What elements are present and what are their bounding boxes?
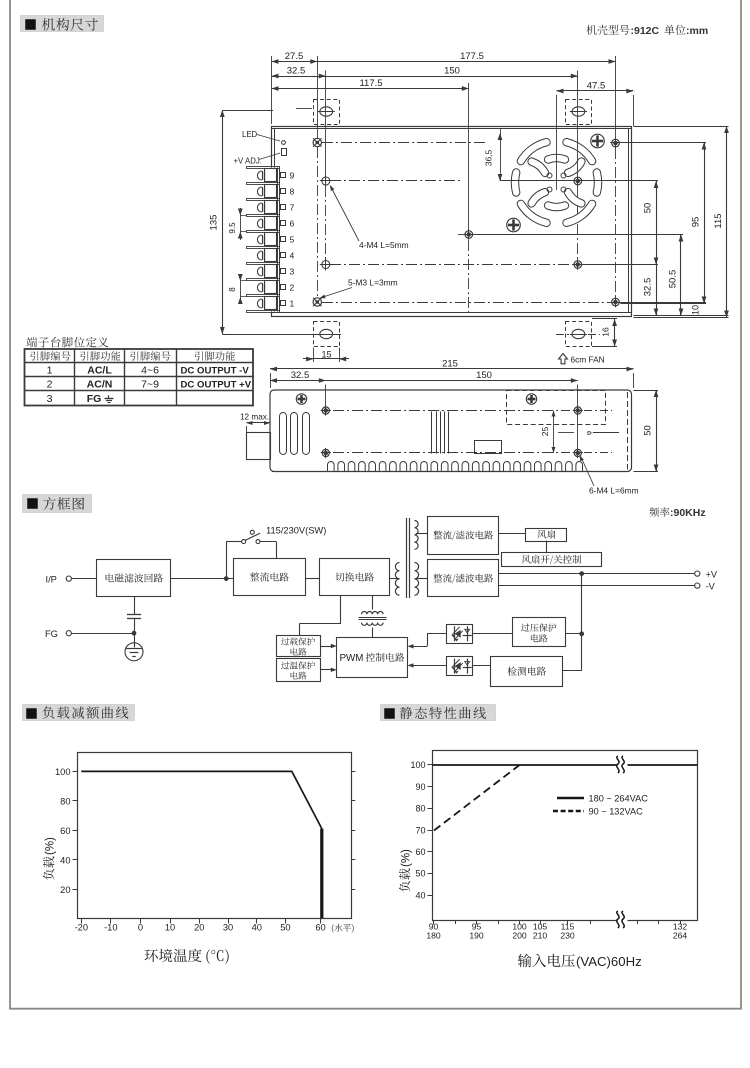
fan control box 风扇开/关控制 xyxy=(502,553,602,567)
svg-text:20: 20 xyxy=(60,885,70,895)
terminal screw 8 xyxy=(257,187,261,196)
centerline mark xyxy=(558,432,574,434)
svg-text:100: 100 xyxy=(55,767,71,777)
right dim 50.5 xyxy=(680,235,682,316)
terminal screw 5 xyxy=(257,235,261,244)
svg-text:32.5: 32.5 xyxy=(287,66,306,77)
y tick 90 xyxy=(428,786,433,788)
svg-text:117.5: 117.5 xyxy=(359,78,382,89)
svg-text:10: 10 xyxy=(165,923,175,933)
axis break marks xyxy=(618,756,628,774)
hole mid left xyxy=(322,261,330,269)
dim extension verticals top xyxy=(271,56,273,124)
side view case outline xyxy=(270,390,632,472)
terminal screw 7 xyxy=(257,203,261,212)
hole center (117.5 ref) xyxy=(465,231,473,239)
frequency label xyxy=(649,507,669,517)
dashed line (90~132VAC) xyxy=(434,765,520,831)
svg-text:6-M4 L=6mm: 6-M4 L=6mm xyxy=(589,486,639,496)
svg-text::912C: :912C xyxy=(631,25,660,37)
hole 5-M3 xyxy=(313,298,321,306)
dim 16 right bracket xyxy=(614,319,616,347)
x tick 20 xyxy=(199,919,201,924)
svg-text:6cm FAN: 6cm FAN xyxy=(571,355,605,365)
opto-coupler U1 xyxy=(447,625,473,644)
wire from switching to protection xyxy=(340,596,342,624)
+V ADJ label xyxy=(282,149,287,156)
switching box 切换电路 xyxy=(320,559,390,596)
svg-text:60: 60 xyxy=(315,923,325,933)
right dim 50 xyxy=(656,181,658,265)
wire xyxy=(546,541,548,553)
svg-text:15: 15 xyxy=(321,350,331,360)
node on +V xyxy=(580,572,584,576)
terminal block top view xyxy=(246,168,279,312)
right dim 95 xyxy=(704,143,706,304)
svg-text:5-M3 L=3mm: 5-M3 L=3mm xyxy=(348,278,398,288)
svg-text:LED: LED xyxy=(242,130,258,139)
dim 15 bottom bracket xyxy=(313,348,315,363)
svg-text:12 max.: 12 max. xyxy=(240,413,269,422)
svg-text:I/P: I/P xyxy=(46,574,57,584)
wire xyxy=(499,533,526,535)
secondary winding (main) xyxy=(415,563,419,596)
y tick 100 xyxy=(428,764,433,766)
svg-text:50: 50 xyxy=(415,869,425,879)
svg-text:7: 7 xyxy=(290,203,295,213)
table title 端子台脚位定义 xyxy=(26,337,108,348)
svg-text:4-M4 L=5mm: 4-M4 L=5mm xyxy=(359,240,409,250)
y tick 80 xyxy=(428,808,433,810)
svg-text:3: 3 xyxy=(290,267,295,277)
arrow wires into PWM xyxy=(320,646,333,648)
section header: 静态特性曲线 xyxy=(381,705,496,721)
svg-text:(%): (%) xyxy=(400,849,412,867)
pinout table xyxy=(25,349,254,406)
svg-text:-20: -20 xyxy=(75,923,88,933)
svg-text:230: 230 xyxy=(560,931,575,941)
x tick 60 xyxy=(320,919,322,924)
svg-text:70: 70 xyxy=(415,825,425,835)
detect box 检测电路 xyxy=(491,657,563,687)
svg-text:30: 30 xyxy=(223,923,233,933)
svg-text:2: 2 xyxy=(47,379,53,391)
wires opto2 xyxy=(411,665,447,667)
bottom mounting brackets (dashed) xyxy=(314,322,340,347)
svg-text:47.5: 47.5 xyxy=(587,81,606,92)
y tick 100 xyxy=(73,771,78,773)
dim line 32.5 / 150 xyxy=(272,76,326,78)
svg-text:9.5: 9.5 xyxy=(228,222,237,234)
side dim 215 xyxy=(270,368,634,370)
svg-text:135: 135 xyxy=(209,215,220,231)
node xyxy=(132,631,136,635)
earth ground symbol xyxy=(134,633,136,647)
centerlines top view xyxy=(322,142,487,144)
svg-text:1: 1 xyxy=(290,299,295,309)
y tick 40 xyxy=(428,895,433,897)
svg-text:DC OUTPUT +V: DC OUTPUT +V xyxy=(181,380,252,391)
-V terminal xyxy=(695,583,700,588)
svg-text:50: 50 xyxy=(643,203,654,214)
svg-text:210: 210 xyxy=(533,931,548,941)
top mounting brackets (dashed) xyxy=(314,100,340,125)
svg-text:264: 264 xyxy=(673,931,688,941)
y tick 60 xyxy=(73,830,78,832)
y tick 20 xyxy=(73,889,78,891)
dim line 117.5 xyxy=(272,88,469,90)
svg-text:32.5: 32.5 xyxy=(643,278,654,297)
wire aux xyxy=(416,533,428,535)
y tick 80 xyxy=(73,800,78,802)
svg-text:180 ~ 264VAC: 180 ~ 264VAC xyxy=(589,794,649,804)
section header: 机构尺寸 xyxy=(21,16,104,32)
terminal screw 2 xyxy=(257,283,261,292)
x tick 30 xyxy=(228,919,230,924)
PWM control box PWM控制电路 xyxy=(337,638,408,678)
main transformer T1 xyxy=(389,578,399,580)
minor x tick xyxy=(498,920,500,924)
svg-text:PWM: PWM xyxy=(340,653,364,664)
terminal screw 1 xyxy=(257,299,261,308)
x tick 10 xyxy=(170,919,172,924)
fan hub circles xyxy=(547,173,552,178)
side dim 32.5 / 150 xyxy=(270,380,326,382)
svg-text:AC/L: AC/L xyxy=(87,365,112,377)
x tick 132/264 xyxy=(680,920,682,925)
wire with junction xyxy=(171,578,233,580)
y tick 60 xyxy=(428,851,433,853)
svg-text:4: 4 xyxy=(290,251,295,261)
node junction xyxy=(224,577,228,581)
derating curve line xyxy=(81,771,321,828)
case model label xyxy=(586,25,629,35)
svg-text:8: 8 xyxy=(290,187,295,197)
svg-text:3: 3 xyxy=(47,393,53,405)
-V output wire xyxy=(499,585,695,587)
side small rect xyxy=(475,441,502,454)
main rectifier box 整流/滤波电路 xyxy=(428,560,499,597)
svg-text:150: 150 xyxy=(444,66,460,77)
svg-text:60: 60 xyxy=(415,847,425,857)
svg-text:200: 200 xyxy=(512,931,527,941)
svg-text:+V ADJ.: +V ADJ. xyxy=(234,157,262,166)
svg-text:6: 6 xyxy=(290,219,295,229)
wire xyxy=(71,578,97,580)
screw below fan xyxy=(507,218,521,232)
hole r1 left (27.5 ref) xyxy=(313,138,321,146)
svg-text:φ: φ xyxy=(586,430,593,435)
section header: 负载减额曲线 xyxy=(23,705,135,721)
x tick 0 xyxy=(140,919,142,924)
svg-text:60: 60 xyxy=(60,826,70,836)
svg-text:215: 215 xyxy=(442,359,458,370)
x tick 40 xyxy=(256,919,258,924)
hole 4-M4 xyxy=(322,177,330,185)
case outline top view xyxy=(272,127,632,317)
overload protection box 过载保护电路 xyxy=(277,636,321,657)
side dim 25 xyxy=(553,411,555,454)
svg-text:180: 180 xyxy=(426,931,441,941)
side transformer lines xyxy=(431,412,433,454)
svg-text:50.5: 50.5 xyxy=(668,270,679,289)
legend xyxy=(557,797,584,799)
FG earth symbol in table xyxy=(108,395,110,398)
primary winding xyxy=(395,563,399,596)
x tick -20 xyxy=(81,919,83,924)
x tick -10 xyxy=(110,919,112,924)
svg-text:-V: -V xyxy=(706,581,716,591)
svg-text:115/230V(SW): 115/230V(SW) xyxy=(266,526,326,536)
svg-text:32.5: 32.5 xyxy=(291,370,310,381)
svg-text:177.5: 177.5 xyxy=(460,51,484,62)
side dim 50 xyxy=(656,390,658,472)
svg-text:2: 2 xyxy=(290,283,295,293)
wire xyxy=(473,665,491,667)
screw top right xyxy=(591,134,605,148)
svg-text:40: 40 xyxy=(60,855,70,865)
svg-text:FG: FG xyxy=(87,393,102,405)
svg-text:20: 20 xyxy=(194,923,204,933)
+V output wire xyxy=(499,573,695,575)
wire xyxy=(71,633,134,635)
side bottom vents xyxy=(328,461,583,471)
wire xyxy=(473,633,513,635)
svg-text:5: 5 xyxy=(290,235,295,245)
svg-text:90: 90 xyxy=(415,782,425,792)
svg-text:+V: +V xyxy=(706,569,718,579)
hole right of fan (150 ref) xyxy=(574,177,582,185)
x axis title 输入电压(VAC)60Hz xyxy=(518,954,575,968)
svg-text:DC OUTPUT -V: DC OUTPUT -V xyxy=(181,366,250,377)
x tick 95/190 xyxy=(476,920,478,925)
36,5 dim xyxy=(500,129,502,181)
y tick 70 xyxy=(428,830,433,832)
svg-text:50: 50 xyxy=(280,923,290,933)
svg-text:9: 9 xyxy=(290,171,295,181)
svg-text:10: 10 xyxy=(691,305,701,315)
svg-text:16: 16 xyxy=(601,327,611,337)
minor x tick xyxy=(637,920,639,924)
opto-coupler U2 xyxy=(447,657,473,676)
svg-text:AC/N: AC/N xyxy=(87,379,113,391)
fan crosshair xyxy=(500,180,658,182)
6cm FAN label xyxy=(559,354,568,364)
minor x tick xyxy=(658,920,660,924)
right dim 115 xyxy=(726,126,728,318)
y axis title 负载(%) xyxy=(43,837,56,880)
x tick 90/180 xyxy=(433,920,435,925)
svg-text:-10: -10 xyxy=(104,923,117,933)
x tick 50 xyxy=(285,919,287,924)
wire xyxy=(565,633,582,635)
right graph frame xyxy=(433,751,698,921)
OVP box 过压保护电路 xyxy=(513,618,566,647)
side dashed fan box xyxy=(507,391,606,425)
sense wire down xyxy=(581,574,583,671)
left graph frame xyxy=(78,753,352,919)
terminal screw 9 xyxy=(257,171,261,180)
minor x tick xyxy=(590,920,592,924)
svg-text:25: 25 xyxy=(540,427,550,437)
svg-text:(%): (%) xyxy=(44,837,56,855)
fan box 风扇 xyxy=(526,529,567,542)
svg-text::mm: :mm xyxy=(686,25,708,37)
dim 8 terminals xyxy=(240,274,242,304)
svg-text:40: 40 xyxy=(252,923,262,933)
+V terminal xyxy=(695,571,700,576)
hole r1 right (177.5 ref) xyxy=(612,139,620,147)
svg-text:90 ~ 132VAC: 90 ~ 132VAC xyxy=(589,807,644,817)
wire xyxy=(305,578,319,580)
top dim line 27.5 / 177.5 xyxy=(272,61,318,63)
svg-text:1: 1 xyxy=(47,365,53,377)
svg-text:27.5: 27.5 xyxy=(285,51,304,62)
svg-text:115: 115 xyxy=(713,213,724,228)
terminal screw 3 xyxy=(257,267,261,276)
svg-text::90KHz: :90KHz xyxy=(670,507,706,519)
svg-text:80: 80 xyxy=(415,804,425,814)
terminal screw 4 xyxy=(257,251,261,260)
x tick 115/230 xyxy=(567,920,569,925)
y tick 40 xyxy=(73,859,78,861)
fan grille xyxy=(521,142,547,161)
y tick 50 xyxy=(428,873,433,875)
EMI filter box 电磁滤波回路 xyxy=(97,560,171,597)
svg-text:0: 0 xyxy=(138,923,143,933)
aux rectifier box 整流/滤波电路 xyxy=(428,517,499,555)
section header: 方框图 xyxy=(23,495,92,513)
svg-text:8: 8 xyxy=(228,287,237,292)
svg-text:100: 100 xyxy=(410,760,425,770)
feedback winding xyxy=(372,596,374,610)
svg-text:FG: FG xyxy=(45,629,58,639)
node xyxy=(580,632,584,636)
svg-text:4~6: 4~6 xyxy=(141,365,159,377)
Y-capacitor xyxy=(134,597,136,614)
svg-text:40: 40 xyxy=(415,890,425,900)
svg-text:150: 150 xyxy=(476,370,492,381)
rectifier box 整流电路 xyxy=(234,559,306,596)
hole bottom right xyxy=(612,298,620,306)
x axis title 环境温度 (℃) xyxy=(145,949,202,963)
input select switch 115/230V(SW) xyxy=(226,542,228,579)
svg-text:(VAC)60Hz: (VAC)60Hz xyxy=(576,954,642,969)
side vent slots xyxy=(280,413,287,455)
secondary winding (aux) xyxy=(415,521,419,550)
core xyxy=(406,518,408,598)
svg-text:50: 50 xyxy=(643,425,654,436)
x tick 100/200 xyxy=(519,920,521,925)
side holes xyxy=(322,407,329,414)
wires opto1 xyxy=(427,633,446,635)
wire sec xyxy=(416,578,428,580)
hole mid right xyxy=(574,261,582,269)
overtemp protection box 过温保护电路 xyxy=(277,659,321,682)
left dim 135 xyxy=(222,110,224,334)
x tick 105/210 xyxy=(540,920,542,925)
side centerlines xyxy=(333,410,570,412)
svg-text:36,5: 36,5 xyxy=(484,149,494,166)
svg-text:95: 95 xyxy=(691,217,702,228)
svg-text:80: 80 xyxy=(60,796,70,806)
side terminal block protrusion xyxy=(247,433,271,460)
dim line 47.5 xyxy=(557,90,634,92)
minor x tick xyxy=(455,920,457,924)
svg-text:190: 190 xyxy=(469,931,484,941)
y axis title 负载(%) xyxy=(399,849,412,892)
side screws xyxy=(296,394,306,404)
right dim 32.5 xyxy=(656,265,658,316)
dim 9.5 terminals xyxy=(240,208,242,240)
solid 100% line (180~264VAC) xyxy=(433,764,698,766)
svg-text:7~9: 7~9 xyxy=(141,379,159,391)
terminal screw 6 xyxy=(257,219,261,228)
axis note (水平) xyxy=(332,924,354,933)
